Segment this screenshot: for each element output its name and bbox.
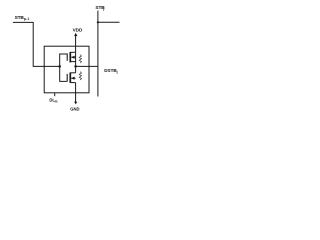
wire output to DSTBj (76, 65, 98, 67)
svg-text:GND: GND (70, 107, 79, 112)
node STBj label (95, 5, 105, 11)
svg-text:DSTB: DSTB (104, 68, 117, 73)
node DSTBj label (104, 68, 117, 74)
wire pmos lead to output node (75, 52, 77, 66)
wire VDD lead (75, 35, 77, 52)
node STBj-1 label (15, 15, 30, 21)
VDD arrow (74, 33, 77, 36)
GND arrow (74, 102, 77, 105)
svg-text:j: j (116, 70, 118, 74)
svg-text:p-1: p-1 (24, 17, 30, 21)
wire DL stub (54, 93, 56, 96)
pmos Q1 drain stub (70, 51, 75, 53)
box outline (44, 46, 89, 93)
pmos Q1 squiggle mark (79, 55, 81, 63)
nmos Q2 channel bar (69, 73, 71, 83)
junction on STBj bus (97, 21, 99, 23)
wire STBj-1 input (horizontal + vertical + horizontal to gate node) (13, 22, 60, 66)
nmos Q2 source arrow stub (71, 77, 75, 79)
pmos Q1 gate bar (66, 53, 68, 60)
wire gate bracket (60, 54, 67, 81)
wire stub to next stage (98, 21, 120, 23)
pmos Q1 channel bar (69, 52, 71, 62)
nmos Q2 gate bar (66, 74, 68, 82)
wire STBj vertical bus (97, 11, 99, 97)
pmos Q1 source arrow stub (71, 56, 75, 58)
svg-text:j: j (102, 7, 104, 11)
wire nmos drain lead (75, 66, 77, 72)
svg-text:m: m (55, 100, 58, 104)
node DLm label (49, 97, 57, 103)
wire nmos source to GND (75, 83, 77, 102)
nmos Q2 drain stub (70, 72, 75, 74)
nmos Q2 squiggle mark (79, 72, 81, 80)
pmos Q1 bottom stub (70, 61, 75, 63)
output node junction dot (74, 65, 77, 68)
nmos Q2 bottom stub (70, 82, 75, 84)
gate node junction dot (58, 65, 61, 68)
svg-text:VDD: VDD (73, 28, 83, 33)
